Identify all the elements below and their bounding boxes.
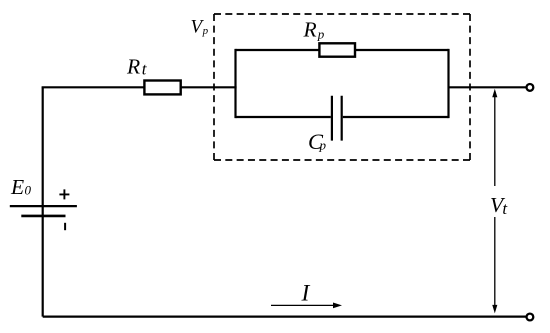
- svg-text:p: p: [202, 25, 209, 37]
- svg-text:R: R: [303, 17, 317, 41]
- svg-text:R: R: [126, 54, 140, 78]
- svg-text:E: E: [10, 175, 24, 199]
- svg-text:0: 0: [25, 183, 32, 198]
- svg-text:p: p: [317, 27, 325, 42]
- svg-text:I: I: [301, 280, 311, 306]
- svg-text:p: p: [319, 137, 327, 152]
